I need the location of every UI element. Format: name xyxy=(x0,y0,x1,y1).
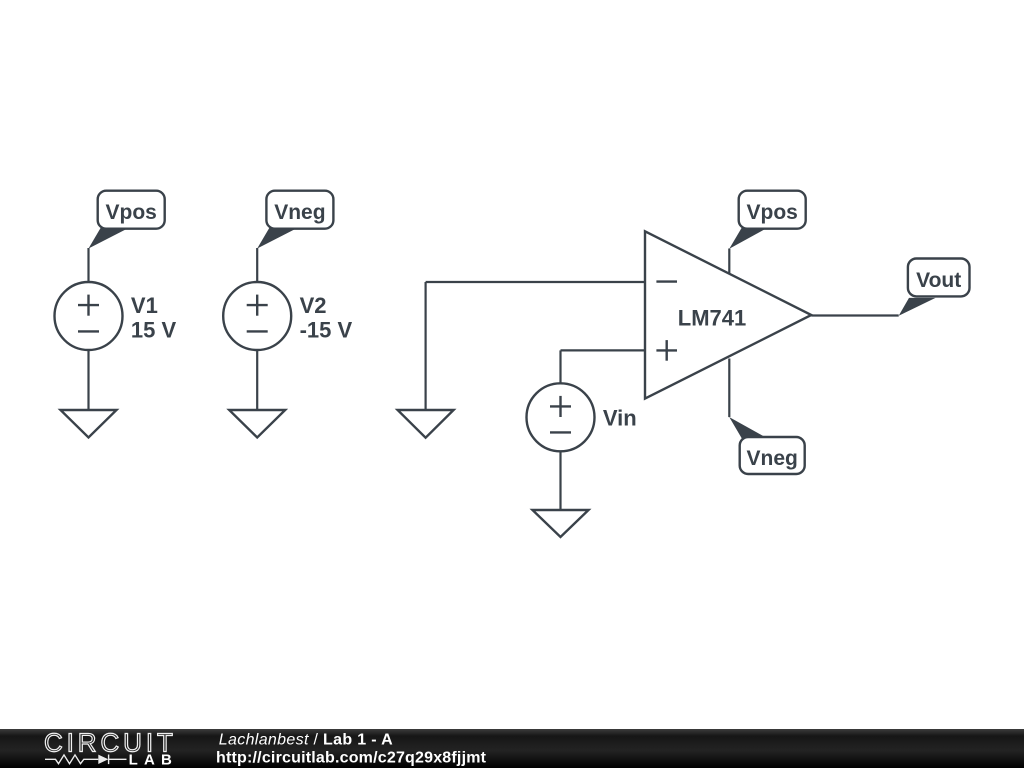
wire V2 top xyxy=(256,248,258,283)
wire left vertical segment xyxy=(425,282,427,410)
svg-text:15 V: 15 V xyxy=(131,318,177,343)
wire non-inverting input horizontal xyxy=(561,349,646,351)
voltage source V1 xyxy=(55,282,177,350)
ground at V2 xyxy=(229,410,285,438)
ground at Vin xyxy=(533,510,589,537)
svg-text:V1: V1 xyxy=(131,293,158,318)
svg-text:LM741: LM741 xyxy=(678,305,746,330)
wire op-amp output xyxy=(811,314,898,316)
svg-text:-15 V: -15 V xyxy=(300,318,353,343)
op-amp U1 LM741 triangle xyxy=(645,231,811,398)
voltage source V2 xyxy=(223,282,352,350)
wire V2 bottom xyxy=(256,350,258,410)
net flag Vpos at op-amp xyxy=(729,191,805,249)
svg-text:http://circuitlab.com/c27q29x8: http://circuitlab.com/c27q29x8fjjmt xyxy=(216,749,487,766)
wire V1 bottom xyxy=(87,350,89,410)
wire Vin top vertical xyxy=(559,350,561,384)
svg-text:V2: V2 xyxy=(300,293,327,318)
logo resistor-diode glyph xyxy=(45,755,127,765)
wire Vneg power pin xyxy=(728,359,730,418)
ground at V1 xyxy=(61,410,117,438)
wire Vin bottom xyxy=(559,451,561,510)
net flag Vpos at V1 xyxy=(89,191,165,249)
svg-text:LAB: LAB xyxy=(129,752,178,768)
svg-text:Vout: Vout xyxy=(916,269,961,292)
net flag Vneg at V2 xyxy=(257,191,333,249)
net flag Vout xyxy=(899,259,970,316)
ground at inverting input xyxy=(398,410,454,438)
voltage source Vin xyxy=(527,383,637,451)
CircuitLab footer bar xyxy=(0,729,1024,768)
svg-text:Vin: Vin xyxy=(603,405,637,430)
svg-text:Vpos: Vpos xyxy=(747,201,798,224)
svg-text:Vneg: Vneg xyxy=(747,447,798,470)
svg-text:Vneg: Vneg xyxy=(274,201,325,224)
wire Vpos power pin xyxy=(728,249,730,274)
wire inverting input to left ground: horizontal segment xyxy=(426,281,645,283)
wire V1 top xyxy=(87,248,89,283)
svg-text:Lachlanbest / Lab 1 - A: Lachlanbest / Lab 1 - A xyxy=(219,731,393,748)
svg-text:Vpos: Vpos xyxy=(106,201,157,224)
net flag Vneg at op-amp xyxy=(729,417,804,474)
